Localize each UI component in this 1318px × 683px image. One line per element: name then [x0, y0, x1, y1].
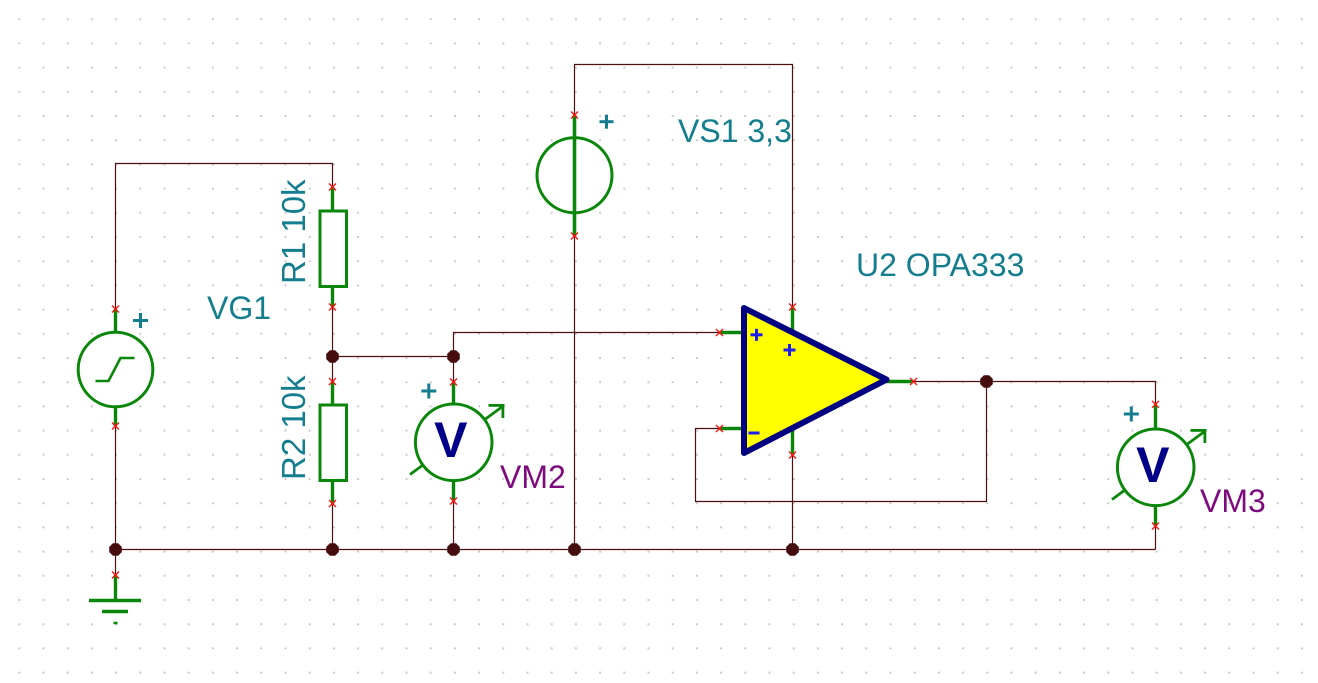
pin op-amp +in	[716, 329, 723, 336]
pin VM3 -	[1152, 523, 1159, 530]
voltmeter VM2	[410, 382, 505, 501]
pin VS1 +	[571, 112, 578, 119]
svg-text:V: V	[434, 412, 468, 468]
wire op-amp output to node C	[914, 381, 987, 383]
wire feedback output to -input	[696, 382, 987, 502]
node C junction dot	[980, 375, 993, 388]
pin op-amp -in	[716, 425, 723, 432]
pin op-amp V+	[789, 304, 796, 311]
voltage generator VG1	[78, 309, 153, 426]
wire node B to op-amp +input	[454, 333, 720, 357]
pin VG1 -	[112, 423, 119, 430]
resistor R1	[320, 187, 347, 307]
wire VG1 bottom to ground rail	[115, 426, 117, 550]
node A junction dot	[326, 350, 339, 363]
plus mark VM3	[1124, 407, 1139, 422]
wire VM3 bottom to ground rail	[1155, 526, 1157, 550]
svg-text:VM2: VM2	[500, 459, 566, 495]
wire VS1 bottom to ground rail	[574, 236, 576, 550]
pin VS1 -	[571, 233, 578, 240]
plus mark supply	[784, 344, 796, 356]
wire R1 bottom to node A	[332, 307, 334, 357]
wire ground rail	[116, 549, 1156, 551]
pin R1 bottom	[329, 304, 336, 311]
wire node B to VM2 top	[453, 357, 455, 383]
junction dot rail R2	[326, 543, 339, 556]
plus mark input	[751, 329, 763, 341]
pin R1 top	[329, 184, 336, 191]
svg-text:R1 10k: R1 10k	[275, 179, 312, 284]
voltmeter VM3	[1112, 404, 1207, 526]
plus mark VS1	[600, 115, 614, 129]
plus mark VM2	[421, 384, 436, 399]
wire VM2 bottom to ground rail	[453, 501, 455, 550]
wire node A to node B	[333, 356, 454, 358]
junction dot rail VS1	[568, 543, 581, 556]
pin ground	[112, 572, 119, 579]
pin op-amp V-	[789, 452, 796, 459]
pin op-amp out	[910, 378, 917, 385]
pin VM3 +	[1152, 401, 1159, 408]
junction dot rail VG1	[109, 543, 122, 556]
svg-text:V: V	[1136, 437, 1170, 493]
svg-text:R2 10k: R2 10k	[275, 375, 312, 480]
junction dot rail op-amp V-	[786, 543, 799, 556]
wire node A to R2 top	[332, 357, 334, 382]
ground	[89, 575, 141, 623]
pin VM2 -	[450, 498, 457, 505]
svg-text:VM3: VM3	[1200, 483, 1266, 519]
svg-text:U2 OPA333: U2 OPA333	[856, 247, 1024, 283]
junction dot rail VM2	[447, 543, 460, 556]
resistor R2	[320, 382, 347, 504]
wire node C to VM3 top	[987, 382, 1156, 405]
pin R2 bottom	[329, 500, 336, 507]
pin R2 top	[329, 378, 336, 385]
svg-text:VG1: VG1	[207, 290, 271, 326]
wire op-amp V- to ground rail	[792, 455, 794, 550]
op-amp U2	[720, 307, 914, 455]
voltage source VS1	[537, 115, 612, 236]
pin VG1 +	[112, 306, 119, 313]
pin cross marks	[112, 112, 1159, 579]
wire VG1 top to R1 top	[116, 164, 333, 310]
minus mark input	[749, 432, 760, 435]
plus mark VG1	[133, 313, 148, 328]
wire R2 bottom to ground rail	[332, 504, 334, 550]
pin VM2 +	[450, 379, 457, 386]
wire rail to ground symbol	[115, 550, 117, 576]
wire VS1 top to op-amp V+	[575, 65, 793, 308]
svg-text:VS1 3,3: VS1 3,3	[678, 113, 792, 149]
node B junction dot	[447, 350, 460, 363]
